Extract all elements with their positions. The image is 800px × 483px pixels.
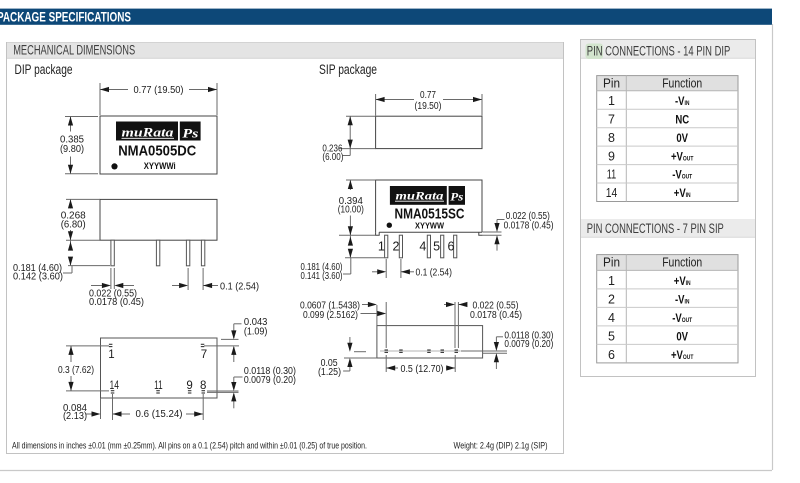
SIP front view body [376, 180, 482, 232]
svg-text:0.0178 (0.45): 0.0178 (0.45) [504, 221, 554, 232]
svg-text:4: 4 [419, 240, 426, 254]
svg-text:MECHANICAL DIMENSIONS: MECHANICAL DIMENSIONS [13, 42, 135, 58]
svg-text:7: 7 [608, 112, 615, 126]
svg-text:4: 4 [608, 311, 615, 325]
DIP top view width dimension 0.77 (19.50) [100, 83, 217, 115]
svg-text:Pin: Pin [603, 76, 620, 90]
svg-text:0.0079 (0.20): 0.0079 (0.20) [504, 339, 553, 350]
svg-text:0.77 (19.50): 0.77 (19.50) [134, 85, 184, 96]
svg-text:2: 2 [608, 292, 615, 306]
svg-text:0.141 (3.60): 0.141 (3.60) [301, 271, 343, 282]
SIP top view body [376, 116, 482, 148]
svg-text:7: 7 [201, 349, 207, 361]
14 pin dip table [597, 76, 738, 202]
SIP pin pitch dimension 0.1 (2.54) [372, 259, 414, 278]
svg-text:0.142 (3.60): 0.142 (3.60) [13, 272, 63, 283]
svg-text:0.0079 (0.20): 0.0079 (0.20) [244, 375, 296, 386]
svg-text:(6.80): (6.80) [61, 219, 86, 230]
SIP bottom view pin markers [385, 350, 459, 352]
svg-text:0.6 (15.24): 0.6 (15.24) [136, 409, 183, 420]
svg-text:0.3 (7.62): 0.3 (7.62) [58, 365, 94, 376]
svg-text:0.099 (2.5162): 0.099 (2.5162) [303, 310, 358, 321]
DIP top view body [100, 116, 217, 174]
SIP lead thickness dimension 0.022 / 0.0178 [483, 220, 505, 251]
svg-text:2: 2 [393, 240, 400, 254]
DIP side view body [100, 199, 217, 240]
DIP offset dimension 0.084 (2.13) [86, 398, 101, 419]
SIP standoff dimension 0.05 (1.25) [343, 337, 377, 371]
page bottom rule [0, 470, 772, 472]
svg-text:9: 9 [186, 380, 192, 392]
svg-text:NC: NC [675, 114, 689, 127]
svg-text:XYYWW: XYYWW [415, 220, 445, 230]
svg-text:11: 11 [154, 380, 163, 392]
svg-text:1: 1 [108, 349, 114, 361]
svg-text:(6.00): (6.00) [322, 152, 343, 163]
DIP pin thickness dimension 0.0118 / 0.0079 [207, 377, 243, 408]
svg-text:(2.13): (2.13) [63, 411, 87, 422]
DIP pin length dimension arrows [63, 240, 110, 273]
svg-text:Ps: Ps [182, 127, 198, 141]
svg-text:8: 8 [200, 380, 206, 392]
SIP front view pins [385, 235, 457, 258]
svg-text:PIN CONNECTIONS - 7 PIN SIP: PIN CONNECTIONS - 7 PIN SIP [587, 221, 724, 237]
mechanical dimensions title bar [7, 42, 563, 59]
DIP top view height dimension 0.385 (9.80) [65, 117, 98, 174]
svg-text:(1.25): (1.25) [318, 367, 341, 378]
svg-text:DIP package: DIP package [15, 62, 73, 77]
svg-text:0.0178 (0.45): 0.0178 (0.45) [89, 297, 144, 308]
svg-text:Ps: Ps [450, 192, 464, 204]
svg-text:1: 1 [608, 94, 615, 108]
svg-text:0V: 0V [676, 132, 688, 145]
pin connections panel frame [581, 40, 756, 377]
svg-text:0.1 (2.54): 0.1 (2.54) [220, 281, 259, 292]
svg-text:1: 1 [378, 240, 385, 254]
svg-text:Weight: 2.4g (DIP) 2.1g (SIP): Weight: 2.4g (DIP) 2.1g (SIP) [454, 441, 548, 452]
svg-text:5: 5 [433, 240, 440, 254]
SIP muRata logo [390, 186, 465, 205]
DIP pin pitch dimension 0.1 (2.54) [172, 268, 218, 290]
svg-text:8: 8 [608, 131, 615, 145]
SIP top view height dimension 0.236 (6.00) [339, 116, 376, 155]
svg-text:0.77: 0.77 [420, 90, 436, 101]
SIP bottom view pin line [354, 351, 507, 353]
SIP pin length dimension arrows [343, 235, 384, 274]
SIP bottom view body [377, 326, 483, 358]
svg-text:0.1 (2.54): 0.1 (2.54) [416, 268, 453, 279]
pin connections 7 pin sip title bar [581, 219, 755, 237]
svg-text:1: 1 [608, 274, 615, 288]
DIP bottom view body [101, 338, 218, 398]
svg-text:PIN CONNECTIONS - 14 PIN DIP: PIN CONNECTIONS - 14 PIN DIP [587, 43, 731, 59]
svg-text:9: 9 [608, 149, 615, 163]
mechanical dimensions panel frame [7, 43, 564, 454]
svg-text:(1.09): (1.09) [244, 327, 268, 338]
DIP side view body height dimension 0.268 (6.80) [66, 199, 100, 240]
svg-text:14: 14 [606, 186, 618, 200]
svg-text:Function: Function [662, 76, 702, 90]
DIP standoff dimension 0.043 (1.09) [204, 324, 242, 362]
SIP pin1 dot [387, 223, 392, 228]
SIP pin width dimension 0.022 / 0.0178 bottom [444, 302, 467, 348]
SIP setback dimension 0.0607 / 0.099 [361, 302, 387, 348]
svg-text:6: 6 [448, 240, 455, 254]
svg-text:Function: Function [662, 256, 702, 270]
SIP front height dimension 0.394 (10.00) [339, 180, 376, 235]
svg-text:11: 11 [607, 168, 617, 182]
DIP bottom view pin markers top row [109, 344, 204, 346]
svg-text:(9.80): (9.80) [60, 144, 84, 155]
svg-text:XYYWWi: XYYWWi [144, 161, 176, 171]
pin connections 14 pin dip title bar [581, 40, 755, 59]
DIP span dimension 0.6 (15.24) [113, 394, 204, 420]
DIP pin width dimension 0.022 / 0.0178 [91, 268, 134, 289]
7 pin sip table [597, 255, 738, 363]
svg-text:SIP package: SIP package [319, 62, 377, 77]
svg-text:(10.00): (10.00) [338, 205, 364, 216]
SIP top view width dimension 0.77 (19.50) [376, 94, 482, 116]
svg-text:PACKAGE SPECIFICATIONS: PACKAGE SPECIFICATIONS [0, 10, 131, 25]
svg-text:NMA0505DC: NMA0505DC [118, 142, 196, 159]
DIP bottom view pin markers bottom row [111, 391, 205, 393]
svg-text:muRata: muRata [122, 126, 174, 140]
SIP pin line thickness dimension 0.0118 / 0.0079 [494, 337, 503, 369]
svg-text:0V: 0V [676, 331, 688, 344]
svg-text:0.5 (12.70): 0.5 (12.70) [401, 364, 444, 375]
DIP side view pins [111, 240, 205, 266]
page title bar [0, 9, 772, 25]
SIP pin numbers [378, 240, 455, 254]
SIP span dimension 0.5 (12.70) [386, 355, 455, 372]
page right border [772, 24, 774, 470]
svg-text:6: 6 [608, 348, 615, 362]
svg-text:(19.50): (19.50) [415, 101, 442, 112]
svg-text:5: 5 [608, 329, 615, 343]
svg-text:14: 14 [110, 380, 120, 392]
DIP row spacing dimension 0.3 (7.62) [66, 346, 109, 391]
svg-text:0.0178 (0.45): 0.0178 (0.45) [470, 310, 522, 321]
DIP pin1 dot [111, 163, 117, 169]
DIP muRata logo [116, 122, 201, 141]
svg-text:All dimensions in inches ±0.01: All dimensions in inches ±0.01 (mm ±0.25… [12, 441, 367, 452]
svg-text:muRata: muRata [396, 189, 444, 203]
svg-text:Pin: Pin [603, 256, 620, 270]
